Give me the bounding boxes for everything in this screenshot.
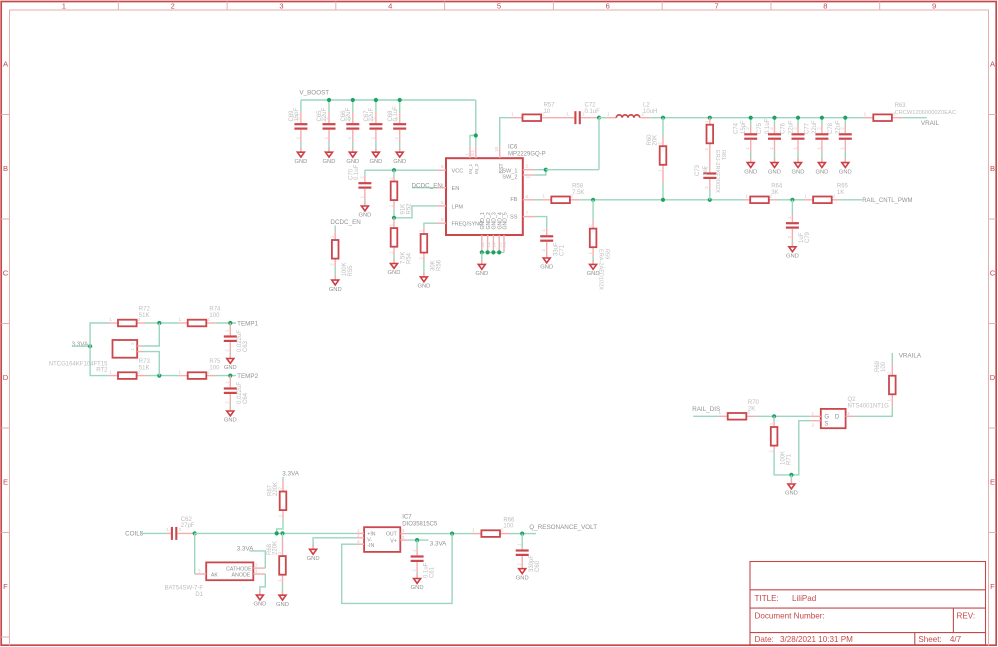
resistor R75 100 xyxy=(178,359,221,379)
svg-text:GND: GND xyxy=(417,284,430,290)
wire C76 to gnd xyxy=(797,152,799,163)
capacitor C74 15pF xyxy=(733,120,757,152)
svg-text:2: 2 xyxy=(517,563,522,566)
node C72 output junction xyxy=(597,116,601,120)
diode D1 BAT54SW-7-F box xyxy=(206,562,253,580)
svg-text:DCDC_EN: DCDC_EN xyxy=(330,219,361,226)
ground xyxy=(786,242,799,259)
svg-text:GND: GND xyxy=(744,169,757,175)
svg-text:1: 1 xyxy=(541,229,546,232)
svg-text:1: 1 xyxy=(745,147,750,150)
svg-text:1: 1 xyxy=(464,153,469,156)
svg-text:ERA-2AED102X: ERA-2AED102X xyxy=(598,249,604,290)
svg-text:1: 1 xyxy=(109,369,112,374)
wire L2 to VRAIL rail xyxy=(650,117,863,119)
frame row letters right xyxy=(990,60,996,592)
svg-text:IC7: IC7 xyxy=(402,515,412,521)
svg-text:14: 14 xyxy=(492,242,497,248)
svg-text:GND: GND xyxy=(276,602,289,608)
svg-text:4: 4 xyxy=(402,528,405,533)
wire C61 to gnd xyxy=(416,573,418,579)
ground xyxy=(768,158,781,175)
ground xyxy=(411,574,424,591)
svg-text:Q_RESONANCE_VOLT: Q_RESONANCE_VOLT xyxy=(529,524,597,531)
svg-text:V_BOOST: V_BOOST xyxy=(299,89,329,96)
wire RT2 pin1 xyxy=(142,352,159,376)
svg-text:C61: C61 xyxy=(430,566,436,578)
svg-text:B: B xyxy=(990,164,995,173)
svg-text:2: 2 xyxy=(887,371,892,374)
svg-text:1: 1 xyxy=(370,136,375,139)
IC7 pin numbers xyxy=(357,528,405,544)
wire D1 cathode to 3.3VA xyxy=(250,551,266,568)
svg-text:1: 1 xyxy=(472,527,475,532)
wire IC7 V+ net xyxy=(407,539,428,541)
svg-text:1: 1 xyxy=(769,147,774,150)
svg-text:IC6: IC6 xyxy=(508,145,518,151)
node TEMP2 junction xyxy=(228,374,232,378)
D1 labels xyxy=(165,585,204,598)
svg-text:1: 1 xyxy=(812,411,815,416)
svg-text:E: E xyxy=(990,478,995,487)
svg-text:C73: C73 xyxy=(695,164,701,176)
svg-text:GND: GND xyxy=(294,159,307,165)
wire C70 drop xyxy=(364,170,366,176)
node C62 junction xyxy=(193,531,197,535)
svg-text:S: S xyxy=(824,422,828,428)
ground xyxy=(329,276,342,293)
svg-text:1: 1 xyxy=(277,514,282,517)
capacitor C72 0.1uF xyxy=(566,102,600,124)
wire SS net xyxy=(535,217,547,228)
node VCC junction xyxy=(392,168,396,172)
op-amp IC6 MP2229GQ-P box xyxy=(446,158,523,235)
IC6 pin stubs xyxy=(437,146,535,252)
wire DCDC_EN stub xyxy=(334,226,336,231)
resistor R64 3K xyxy=(745,184,783,204)
node R67 junction xyxy=(275,531,279,535)
svg-text:2: 2 xyxy=(255,563,258,568)
svg-text:C76: C76 xyxy=(781,122,787,134)
wire R64 to R65 xyxy=(777,199,804,201)
wire R68 to gnd xyxy=(282,584,284,595)
svg-text:1: 1 xyxy=(607,111,610,116)
IC6 inner vertical pin names xyxy=(468,163,508,230)
svg-text:F: F xyxy=(990,582,995,591)
frame column numbers top xyxy=(62,1,936,10)
svg-text:GND: GND xyxy=(839,169,852,175)
svg-text:R55: R55 xyxy=(348,265,354,277)
svg-text:1: 1 xyxy=(864,112,867,117)
svg-text:G: G xyxy=(824,414,829,420)
svg-text:V+: V+ xyxy=(390,538,397,544)
svg-text:GND: GND xyxy=(323,159,336,165)
svg-text:2: 2 xyxy=(225,349,230,352)
capacitor C68 0.1uF xyxy=(388,106,406,142)
node rail junction xyxy=(820,116,824,120)
resistor R69 100 xyxy=(875,360,896,406)
node rail junction xyxy=(749,116,753,120)
wire R73 to R75 xyxy=(146,375,178,377)
svg-text:27pF: 27pF xyxy=(181,523,195,529)
ground xyxy=(839,158,852,175)
wire riser to IN pins xyxy=(475,100,477,146)
wire SW node to riser xyxy=(546,169,599,171)
capacitor C62 27pF xyxy=(166,517,195,540)
svg-text:GND: GND xyxy=(253,602,266,608)
wire IC7 V- to gnd xyxy=(313,538,356,550)
node rail junction xyxy=(374,98,378,102)
resistor R56 30K xyxy=(418,227,442,271)
svg-text:12: 12 xyxy=(480,242,485,248)
svg-text:DIO35815C5: DIO35815C5 xyxy=(402,521,438,527)
svg-text:TEMP2: TEMP2 xyxy=(237,373,258,380)
svg-text:22uF: 22uF xyxy=(836,120,842,134)
svg-text:4: 4 xyxy=(388,1,392,10)
resistor R65 1K xyxy=(804,184,849,204)
svg-text:DCDC_EN: DCDC_EN xyxy=(412,183,443,190)
wire C70 to gnd xyxy=(364,201,366,207)
node C79 junction xyxy=(790,198,794,202)
wire 3.3VA down to R73 xyxy=(90,346,109,375)
svg-text:9: 9 xyxy=(441,164,444,169)
wire R52 top xyxy=(393,170,395,176)
svg-text:GND: GND xyxy=(792,169,805,175)
IC7 inner pin names xyxy=(367,531,397,549)
svg-text:22uF: 22uF xyxy=(812,120,818,134)
wire C76 to rail xyxy=(797,118,799,126)
resistor R52 91K xyxy=(388,176,412,215)
wire C77 to gnd xyxy=(821,152,823,163)
svg-text:1: 1 xyxy=(323,136,328,139)
svg-text:1: 1 xyxy=(719,410,722,415)
capacitor C75 0.1uF xyxy=(757,118,781,152)
svg-text:GND: GND xyxy=(786,254,799,260)
svg-text:R73: R73 xyxy=(139,359,151,365)
svg-text:9: 9 xyxy=(932,1,936,10)
resistor R59 ERA-2AED102X xyxy=(588,220,610,290)
svg-text:RAIL_CNTL_PWM: RAIL_CNTL_PWM xyxy=(862,198,912,204)
wire EN net DCDC_EN xyxy=(412,187,437,189)
capacitor C60 330pF xyxy=(516,543,541,572)
wire C77 to rail xyxy=(821,118,823,126)
capacitor C78 22uF xyxy=(828,120,852,152)
wire COIL5 xyxy=(140,532,166,534)
wire C78 to gnd xyxy=(844,152,846,163)
svg-text:1: 1 xyxy=(418,229,423,232)
node VRAIL junction R61 xyxy=(708,116,712,120)
svg-text:1: 1 xyxy=(804,194,807,199)
wire to L2 xyxy=(599,117,607,119)
svg-text:1: 1 xyxy=(412,549,417,552)
Q2 pin numbers xyxy=(812,411,851,428)
ground xyxy=(785,479,798,496)
wire R56 to gnd xyxy=(423,262,425,277)
svg-text:R58: R58 xyxy=(572,184,584,190)
svg-text:1: 1 xyxy=(588,251,593,254)
svg-text:2: 2 xyxy=(330,263,335,266)
wire C61 drop xyxy=(416,540,418,548)
wire C65 to rail xyxy=(328,100,330,112)
ground xyxy=(815,158,828,175)
wire drop to D1 xyxy=(194,533,196,574)
svg-text:2: 2 xyxy=(833,194,836,199)
wire 3.3VA stub R67 xyxy=(282,477,284,481)
svg-text:2: 2 xyxy=(388,251,393,254)
node R68 junction xyxy=(280,531,284,535)
svg-text:2: 2 xyxy=(526,164,529,169)
svg-text:2: 2 xyxy=(787,235,792,238)
svg-text:51K: 51K xyxy=(139,313,150,319)
svg-text:BST: BST xyxy=(499,163,505,174)
svg-text:GND: GND xyxy=(358,213,371,219)
svg-text:1: 1 xyxy=(295,136,300,139)
wire RAIL_CNTL_PWM xyxy=(840,199,862,201)
svg-text:1: 1 xyxy=(769,422,774,425)
svg-text:NTS4001NT1G: NTS4001NT1G xyxy=(848,403,890,409)
svg-text:ANODE: ANODE xyxy=(232,573,251,579)
wire C69 to rail xyxy=(300,100,302,112)
svg-text:TEMP1: TEMP1 xyxy=(237,320,258,327)
svg-text:VRAIL: VRAIL xyxy=(921,120,940,127)
wire SW_1 to node xyxy=(535,169,546,171)
svg-text:2: 2 xyxy=(588,224,593,227)
wire C64 to gnd xyxy=(229,405,231,412)
svg-text:1: 1 xyxy=(62,1,66,10)
svg-text:1: 1 xyxy=(787,216,792,219)
svg-text:3.3VA: 3.3VA xyxy=(237,545,254,552)
svg-text:GND: GND xyxy=(768,169,781,175)
node rail junction xyxy=(351,98,355,102)
wire R71 top xyxy=(773,416,775,422)
svg-text:B1: B1 xyxy=(470,150,475,156)
svg-text:C63: C63 xyxy=(243,340,249,352)
svg-text:1: 1 xyxy=(657,169,662,172)
resistor R67 220K xyxy=(268,481,287,520)
frame row ticks right xyxy=(989,115,997,533)
svg-text:R57: R57 xyxy=(544,102,556,108)
node rail junction xyxy=(398,98,402,102)
svg-text:3: 3 xyxy=(279,1,283,10)
node C60 junction xyxy=(520,532,524,536)
svg-text:F: F xyxy=(3,582,8,591)
capacitor C76 22uF xyxy=(781,120,805,152)
svg-text:R72: R72 xyxy=(139,307,151,313)
svg-text:GND: GND xyxy=(815,169,828,175)
node V_BOOST junction at IN pins xyxy=(474,133,478,137)
svg-text:0.1uF: 0.1uF xyxy=(393,106,399,122)
svg-text:C79: C79 xyxy=(805,231,811,243)
svg-text:GND: GND xyxy=(307,556,320,562)
svg-text:GND: GND xyxy=(369,159,382,165)
svg-text:5: 5 xyxy=(441,200,444,205)
capacitor C61 0.1uF xyxy=(411,549,436,579)
wire GND bus under IC6 xyxy=(482,251,504,253)
node FB junction C73 xyxy=(708,198,712,202)
svg-text:3.3VA: 3.3VA xyxy=(72,341,89,348)
wire VCC net xyxy=(365,169,437,171)
svg-text:C64: C64 xyxy=(243,392,249,404)
D1 pin numbers xyxy=(198,563,258,574)
svg-text:ERJ-2RKF2002X: ERJ-2RKF2002X xyxy=(714,150,720,193)
svg-text:1: 1 xyxy=(517,543,522,546)
svg-text:2: 2 xyxy=(704,186,709,189)
svg-text:8: 8 xyxy=(441,217,444,222)
resistor R68 220K xyxy=(267,539,286,584)
svg-text:1: 1 xyxy=(255,569,258,574)
frame column ticks top xyxy=(118,2,879,11)
svg-text:R56: R56 xyxy=(437,259,443,271)
svg-text:C74: C74 xyxy=(733,122,739,134)
ground xyxy=(393,148,406,165)
svg-text:1: 1 xyxy=(225,329,230,332)
wire R54 to gnd xyxy=(393,255,395,264)
wire V_BOOST rail xyxy=(301,99,476,101)
svg-text:15pF: 15pF xyxy=(741,120,747,134)
svg-text:1: 1 xyxy=(166,527,169,532)
capacitor C71 33uF xyxy=(540,228,565,256)
svg-text:11: 11 xyxy=(526,174,531,179)
wire R71 bottom to gnd node xyxy=(774,451,791,475)
svg-text:RAIL_DIS: RAIL_DIS xyxy=(692,406,720,413)
transistor Q2 NTS4001NT1G box xyxy=(821,409,846,428)
wire C63 to gnd xyxy=(229,353,231,359)
wire R72 to R74 xyxy=(146,322,178,324)
svg-text:GND: GND xyxy=(224,418,237,424)
wire TEMP2 xyxy=(216,375,236,377)
title block text TITLE LiliPad xyxy=(755,594,817,603)
svg-text:7: 7 xyxy=(714,1,718,10)
svg-text:SS: SS xyxy=(510,215,518,221)
svg-text:100: 100 xyxy=(209,313,220,319)
ground xyxy=(276,591,289,608)
node gnd bus junction xyxy=(480,250,484,254)
wire SW riser xyxy=(598,118,600,170)
svg-text:1: 1 xyxy=(840,147,845,150)
svg-text:20K: 20K xyxy=(653,135,659,146)
wire C66 to gnd xyxy=(352,142,354,152)
svg-text:REV:: REV: xyxy=(957,611,976,620)
svg-text:C78: C78 xyxy=(828,122,834,134)
svg-text:D1: D1 xyxy=(195,592,203,598)
svg-text:1: 1 xyxy=(792,147,797,150)
IC6 pin numbers xyxy=(441,164,531,223)
svg-text:R74: R74 xyxy=(209,307,221,313)
D1 inner pin names xyxy=(211,566,252,578)
resistor R73 51K xyxy=(109,359,151,379)
svg-text:CATHODE: CATHODE xyxy=(226,566,252,572)
ground xyxy=(253,590,266,607)
wire R60 bottom xyxy=(662,183,664,200)
svg-text:220K: 220K xyxy=(273,482,279,496)
svg-text:1: 1 xyxy=(130,348,135,351)
svg-text:Sheet:: Sheet: xyxy=(918,635,941,644)
resistor R57 10 xyxy=(511,102,566,121)
svg-text:51K: 51K xyxy=(139,365,150,371)
node rail junction xyxy=(772,116,776,120)
title block text Document Number xyxy=(755,611,976,620)
node gnd bus junction xyxy=(491,250,495,254)
svg-text:220K: 220K xyxy=(273,541,279,555)
svg-text:R54: R54 xyxy=(407,252,413,264)
wire C68 to rail xyxy=(399,100,401,112)
ground xyxy=(388,259,401,276)
wire C67 to gnd xyxy=(375,142,377,152)
svg-text:3: 3 xyxy=(198,569,201,574)
capacitor C67 22uF xyxy=(364,107,382,142)
svg-text:1: 1 xyxy=(394,136,399,139)
svg-text:D: D xyxy=(3,373,9,382)
IC6 inner pin names xyxy=(452,168,518,227)
svg-text:GND_5: GND_5 xyxy=(502,212,508,229)
svg-text:MP2229GQ-P: MP2229GQ-P xyxy=(508,152,546,158)
IC7 pin stubs xyxy=(356,533,407,544)
svg-text:R70: R70 xyxy=(748,400,760,406)
wire C60 drop xyxy=(521,534,523,548)
wire C67 to rail xyxy=(375,100,377,112)
svg-text:10: 10 xyxy=(494,146,499,152)
svg-text:1: 1 xyxy=(816,147,821,150)
svg-text:1K: 1K xyxy=(837,190,844,196)
wire C65 to gnd xyxy=(328,142,330,152)
svg-text:2K: 2K xyxy=(748,406,755,412)
svg-text:13: 13 xyxy=(486,242,491,248)
wire main resonance net xyxy=(195,532,356,534)
svg-text:Document Number:: Document Number: xyxy=(755,611,825,620)
wire FREQ/SYNC net xyxy=(424,223,437,227)
svg-text:L2: L2 xyxy=(643,102,650,108)
svg-text:GND: GND xyxy=(411,585,424,591)
capacitor C64 0.022uF xyxy=(224,376,249,405)
svg-text:22uF: 22uF xyxy=(369,107,375,121)
wire R68 top xyxy=(282,533,284,539)
RT2 pin stubs xyxy=(137,346,142,352)
svg-text:SW_2: SW_2 xyxy=(502,174,517,180)
capacitor C63 0.022uF xyxy=(224,323,249,353)
svg-text:BAT54SW-7-F: BAT54SW-7-F xyxy=(165,585,204,591)
ground xyxy=(294,148,307,165)
svg-text:1: 1 xyxy=(511,112,514,117)
wire R70 to Q2 xyxy=(756,415,811,417)
svg-text:0.1uF: 0.1uF xyxy=(354,164,360,180)
svg-text:6: 6 xyxy=(606,1,610,10)
svg-text:2: 2 xyxy=(769,450,774,453)
svg-text:5: 5 xyxy=(497,1,501,10)
resistor R70 2K xyxy=(718,400,759,420)
svg-text:GND: GND xyxy=(388,270,401,276)
svg-text:GND: GND xyxy=(329,287,342,293)
svg-text:1: 1 xyxy=(542,194,545,199)
svg-text:0.1uF: 0.1uF xyxy=(765,118,771,134)
wire FB stub xyxy=(535,199,542,201)
frame row ticks left xyxy=(1,115,9,638)
svg-text:1: 1 xyxy=(347,136,352,139)
svg-text:R66: R66 xyxy=(503,517,515,523)
svg-text:GND: GND xyxy=(540,265,553,271)
resistor R54 7.5K xyxy=(388,218,412,264)
svg-text:100: 100 xyxy=(881,361,887,372)
ground xyxy=(323,148,336,165)
svg-text:LiliPad: LiliPad xyxy=(792,594,816,603)
svg-text:B: B xyxy=(3,164,8,173)
node feedback junction xyxy=(450,532,454,536)
wire C69 to gnd xyxy=(300,142,302,152)
svg-text:1: 1 xyxy=(887,399,892,402)
ground xyxy=(417,272,430,289)
ground xyxy=(540,253,553,270)
wire feedback loop xyxy=(342,534,452,604)
svg-text:1: 1 xyxy=(359,195,364,198)
